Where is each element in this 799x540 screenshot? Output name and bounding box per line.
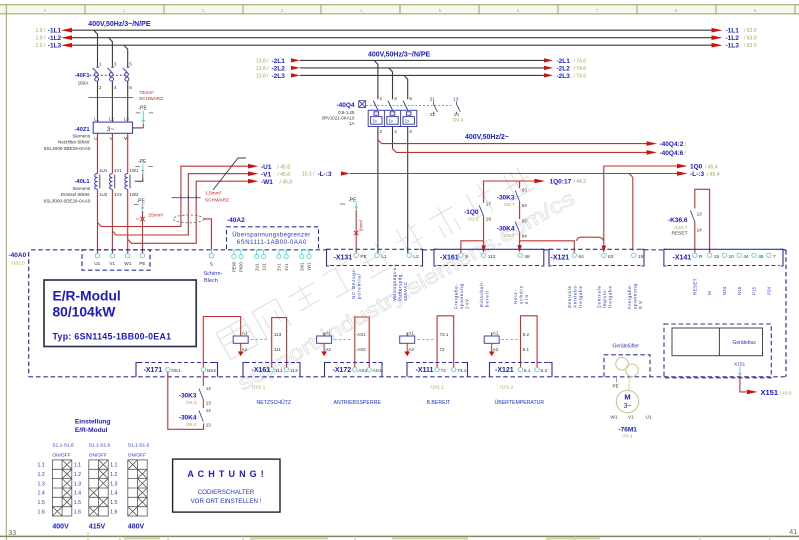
svg-text:potential: potential	[357, 274, 362, 299]
svg-text:-1L3: -1L3	[726, 43, 740, 50]
svg-text:W1: W1	[611, 414, 618, 419]
svg-text:I>: I>	[405, 119, 409, 125]
svg-text:L1: L1	[381, 254, 387, 260]
svg-text:-2L1: -2L1	[557, 58, 571, 65]
svg-text:ANTRIEBSSPERRE: ANTRIEBSSPERRE	[334, 400, 382, 406]
svg-text:1Q0:17: 1Q0:17	[550, 179, 572, 186]
svg-text:45: 45	[758, 254, 764, 260]
svg-text:-V1: -V1	[261, 171, 272, 178]
svg-text:NS1: NS1	[171, 368, 181, 374]
svg-text:PE: PE	[613, 383, 619, 388]
svg-text:U1: U1	[646, 414, 652, 419]
svg-text:113: 113	[274, 332, 282, 337]
svg-text:18: 18	[486, 216, 492, 221]
svg-text:SCHWARZ: SCHWARZ	[205, 197, 229, 203]
svg-text:Zentrale: Zentrale	[597, 286, 602, 308]
svg-text:Zentrale: Zentrale	[567, 286, 572, 308]
svg-text:/ 63.0: / 63.0	[744, 28, 757, 34]
svg-text:/101.2: /101.2	[500, 384, 514, 390]
svg-text:9: 9	[465, 254, 468, 260]
svg-text:0,9-1,25: 0,9-1,25	[338, 110, 355, 115]
svg-text:2V1: 2V1	[277, 263, 282, 271]
svg-text:63: 63	[522, 188, 528, 193]
svg-text:W1: W1	[124, 261, 132, 267]
svg-text:22: 22	[430, 112, 436, 117]
svg-text:5: 5	[409, 96, 412, 101]
svg-text:Überspannungsbegrenzer: Überspannungsbegrenzer	[232, 232, 310, 239]
svg-text:19: 19	[638, 254, 644, 260]
svg-text:A2: A2	[242, 347, 248, 352]
svg-text:400V: 400V	[52, 524, 69, 531]
svg-text:6SN1111-1AB00-0AA0: 6SN1111-1AB00-0AA0	[237, 240, 307, 246]
svg-text:1.2: 1.2	[110, 472, 117, 478]
svg-text:1: 1	[99, 61, 102, 66]
svg-text:A1: A1	[408, 330, 414, 335]
svg-text:13: 13	[206, 423, 212, 428]
svg-text:480V: 480V	[128, 524, 145, 531]
svg-text:1.4: 1.4	[110, 491, 117, 497]
svg-text:A2: A2	[493, 347, 499, 352]
svg-text:5.1: 5.1	[523, 347, 530, 352]
svg-text:ÜBERTEMPERATUR: ÜBERTEMPERATUR	[495, 399, 545, 406]
svg-text:NS2: NS2	[207, 368, 217, 374]
svg-text:-76M1: -76M1	[619, 426, 638, 433]
svg-text:-X121: -X121	[495, 367, 514, 374]
svg-text:M: M	[707, 291, 712, 295]
svg-text:-PE: -PE	[138, 159, 147, 165]
svg-text:freigabe: freigabe	[578, 286, 583, 308]
svg-text:113: 113	[290, 368, 298, 374]
svg-text:70mm²: 70mm²	[139, 90, 154, 96]
svg-text:1,5mm²: 1,5mm²	[205, 190, 222, 196]
svg-text:1.1: 1.1	[110, 463, 117, 469]
svg-text:N24: N24	[722, 286, 727, 295]
svg-text:I>: I>	[373, 119, 377, 125]
svg-text:1.4: 1.4	[74, 491, 81, 497]
svg-text:NC-Bezugs-: NC-Bezugs-	[351, 268, 356, 300]
svg-text:-L-:3: -L-:3	[318, 171, 332, 178]
svg-text:N15: N15	[737, 286, 742, 295]
svg-text:/ 63.0: / 63.0	[744, 43, 757, 49]
svg-text:-1L1: -1L1	[726, 28, 740, 35]
svg-text:/ 45.8: / 45.8	[278, 172, 291, 178]
svg-text:-40A0: -40A0	[9, 252, 27, 259]
svg-text:A2: A2	[408, 347, 414, 352]
svg-text:L2: L2	[413, 254, 419, 260]
svg-text:S1.1-S1.6: S1.1-S1.6	[89, 443, 111, 449]
svg-text:schütz: schütz	[519, 285, 524, 304]
svg-text:-X131: -X131	[334, 254, 353, 261]
svg-text:25mm²: 25mm²	[148, 213, 163, 219]
svg-text:-40F1: -40F1	[74, 73, 90, 79]
svg-text:Drossel 80kW:: Drossel 80kW:	[61, 192, 91, 197]
svg-text:E/R-Modul: E/R-Modul	[75, 427, 108, 434]
svg-text:Siemens: Siemens	[72, 186, 91, 191]
svg-text:P600: P600	[239, 262, 244, 272]
svg-text:A1: A1	[242, 330, 248, 335]
svg-text:RESET: RESET	[692, 278, 697, 295]
svg-text:Einschalt-: Einschalt-	[479, 281, 484, 308]
svg-text:300VAC: 300VAC	[403, 281, 408, 301]
svg-text:1V1: 1V1	[284, 263, 289, 271]
svg-text:9: 9	[754, 8, 757, 13]
svg-text:24V: 24V	[465, 299, 470, 309]
svg-text:8: 8	[675, 8, 678, 13]
svg-text:AS2: AS2	[358, 368, 367, 374]
svg-text:4: 4	[114, 85, 117, 90]
svg-text:VOR ORT EINSTELLEN !: VOR ORT EINSTELLEN !	[191, 498, 262, 505]
svg-text:1U1: 1U1	[261, 263, 266, 271]
svg-text:/ 74.6: / 74.6	[574, 58, 587, 64]
svg-text:-2L2: -2L2	[557, 65, 571, 72]
svg-text:Einstellung: Einstellung	[75, 418, 111, 425]
svg-text:3~: 3~	[624, 403, 632, 410]
svg-text:/ 74.6: / 74.6	[574, 66, 587, 72]
svg-text:-X172: -X172	[333, 367, 352, 374]
svg-text:1.5: 1.5	[110, 500, 117, 506]
svg-text:63: 63	[522, 219, 528, 224]
svg-text:Antriebs-: Antriebs-	[573, 284, 578, 309]
svg-text:CODIERSCHALTER: CODIERSCHALTER	[198, 489, 255, 496]
svg-text:64: 64	[522, 203, 528, 208]
svg-text:13.8 /: 13.8 /	[256, 66, 269, 72]
svg-text:3: 3	[281, 8, 284, 13]
svg-text:RESET: RESET	[672, 231, 688, 237]
svg-text:5.2: 5.2	[541, 368, 548, 374]
svg-text:-X111: -X111	[416, 367, 434, 374]
svg-text:A1: A1	[493, 330, 499, 335]
svg-text:-1Q0: -1Q0	[464, 209, 479, 216]
svg-text:111: 111	[275, 368, 283, 374]
svg-text:-PE: -PE	[137, 198, 146, 204]
svg-text:1.9 /: 1.9 /	[36, 28, 46, 34]
svg-text:B.BEREIT: B.BEREIT	[427, 400, 451, 406]
svg-text:PE60: PE60	[232, 261, 237, 272]
svg-text:112: 112	[488, 254, 496, 260]
svg-text:1.2: 1.2	[38, 472, 45, 478]
svg-text:1W2: 1W2	[129, 192, 139, 197]
svg-text:NETZSCHÜTZ: NETZSCHÜTZ	[257, 399, 292, 406]
svg-text:AS2: AS2	[357, 347, 366, 352]
svg-text:S: S	[210, 262, 213, 267]
svg-text:-2L3: -2L3	[557, 73, 571, 80]
svg-text:X151: X151	[761, 388, 779, 397]
svg-text:SCHWARZ: SCHWARZ	[139, 96, 163, 102]
svg-text:1.4: 1.4	[38, 491, 45, 497]
svg-text:-PE: -PE	[348, 198, 357, 204]
svg-text:3RV1021-0KA10: 3RV1021-0KA10	[322, 115, 355, 120]
svg-text:-X161: -X161	[440, 254, 459, 261]
svg-text:80/104kW: 80/104kW	[53, 305, 117, 320]
svg-text:1V1: 1V1	[114, 168, 123, 173]
svg-text:-U1: -U1	[261, 164, 272, 171]
svg-text:5: 5	[439, 8, 442, 13]
svg-text:-30K4: -30K4	[179, 415, 197, 422]
svg-text:-40Q4:6: -40Q4:6	[660, 150, 684, 157]
svg-text:Freigabe-: Freigabe-	[627, 284, 632, 310]
svg-text:/ 44.2: / 44.2	[574, 179, 587, 185]
svg-text:ON/OFF: ON/OFF	[128, 453, 146, 459]
svg-text:Siemens: Siemens	[72, 133, 91, 138]
svg-text:1W1: 1W1	[129, 168, 139, 173]
svg-text:U1: U1	[94, 261, 100, 267]
svg-text:400V,50Hz/2~: 400V,50Hz/2~	[465, 134, 509, 141]
svg-text:3: 3	[114, 61, 117, 66]
svg-text:10.1 /: 10.1 /	[302, 172, 315, 178]
svg-text:L1: L1	[94, 116, 100, 121]
svg-text:6mm²: 6mm²	[359, 219, 364, 231]
svg-text:spannung: spannung	[632, 284, 637, 309]
svg-text:111: 111	[274, 347, 281, 352]
svg-text:Pufferspdg.: Pufferspdg.	[398, 273, 403, 301]
svg-text:400V,50Hz/3~/N/PE: 400V,50Hz/3~/N/PE	[88, 21, 151, 28]
svg-text:A2: A2	[325, 347, 331, 352]
svg-text:/30.7: /30.7	[504, 202, 515, 208]
svg-text:160A: 160A	[78, 80, 90, 85]
svg-text:64: 64	[522, 233, 528, 238]
svg-text:-2L3: -2L3	[272, 73, 286, 80]
svg-text:Gerätelüfter: Gerätelüfter	[613, 343, 640, 349]
svg-text:PE: PE	[360, 254, 366, 260]
svg-text:1A: 1A	[349, 121, 354, 126]
svg-text:freigabe: freigabe	[608, 286, 613, 308]
svg-text:/101.0: /101.0	[12, 261, 26, 267]
svg-text:1.6: 1.6	[74, 509, 81, 515]
svg-text:-X161: -X161	[252, 367, 271, 374]
svg-text:/ 45.4: / 45.4	[705, 164, 718, 170]
svg-text:73.1: 73.1	[457, 368, 467, 374]
svg-text:1W1: 1W1	[307, 262, 312, 271]
svg-text:17: 17	[486, 202, 492, 207]
svg-text:63: 63	[608, 254, 614, 260]
svg-text:13: 13	[697, 212, 703, 217]
svg-text:14: 14	[697, 227, 703, 232]
svg-text:-30K4: -30K4	[497, 226, 515, 233]
svg-text:0V: 0V	[638, 301, 643, 309]
svg-text:-40Z1: -40Z1	[74, 127, 90, 133]
svg-text:7: 7	[596, 8, 599, 13]
svg-text:-X171: -X171	[144, 367, 163, 374]
svg-text:Gerätebus: Gerätebus	[733, 340, 757, 346]
svg-text:-30K3: -30K3	[497, 195, 515, 202]
svg-text:/20.4: /20.4	[453, 117, 464, 123]
svg-text:Typ: 6SN1145-1BB00-0EA1: Typ: 6SN1145-1BB00-0EA1	[53, 331, 172, 341]
svg-text:Blech: Blech	[204, 278, 218, 284]
svg-text:1.5: 1.5	[74, 500, 81, 506]
svg-text:-2L1: -2L1	[272, 58, 286, 65]
svg-text:1.6: 1.6	[38, 509, 45, 515]
svg-text:V1: V1	[109, 261, 115, 267]
svg-text:13: 13	[206, 401, 212, 406]
svg-text:-X121: -X121	[551, 254, 570, 261]
svg-text:/ 63.0: / 63.0	[744, 36, 757, 42]
svg-text:-1L2: -1L2	[726, 35, 740, 42]
svg-text:5.1: 5.1	[524, 368, 531, 374]
svg-text:-1L3: -1L3	[48, 43, 62, 50]
svg-text:spannung: spannung	[459, 284, 464, 309]
svg-text:-PE: -PE	[139, 105, 148, 111]
svg-text:48: 48	[524, 254, 530, 260]
svg-text:13: 13	[453, 96, 459, 101]
svg-text:/31.1: /31.1	[468, 217, 479, 223]
svg-text:S1.1-S1.6: S1.1-S1.6	[52, 443, 74, 449]
svg-text:6: 6	[517, 8, 520, 13]
svg-text:/101.1: /101.1	[431, 384, 445, 390]
svg-text:Versorgungs-u.: Versorgungs-u.	[392, 266, 397, 301]
svg-text:33: 33	[8, 530, 16, 537]
svg-text:Impuls-: Impuls-	[602, 289, 607, 309]
svg-text:2: 2	[99, 85, 102, 90]
svg-text:0: 0	[44, 8, 47, 13]
svg-text:1Q0: 1Q0	[690, 164, 703, 171]
svg-text:L3: L3	[124, 116, 130, 121]
svg-text:Schirm-: Schirm-	[204, 271, 223, 277]
svg-text:Freigabe-: Freigabe-	[454, 284, 459, 310]
svg-text:2: 2	[380, 129, 383, 134]
svg-text:5.2: 5.2	[523, 332, 530, 337]
svg-text:R: R	[699, 254, 703, 260]
svg-text:13.8 /: 13.8 /	[256, 73, 269, 79]
svg-text:3~: 3~	[107, 126, 115, 133]
svg-text:/120.7: /120.7	[674, 225, 688, 231]
svg-text:bereit: bereit	[485, 290, 490, 307]
svg-text:41: 41	[789, 529, 797, 536]
svg-text:S1.1-S1.6: S1.1-S1.6	[128, 443, 150, 449]
svg-text:1V2: 1V2	[114, 192, 123, 197]
svg-text:-40L1: -40L1	[74, 179, 90, 185]
svg-text:-1L2: -1L2	[48, 35, 62, 42]
svg-text:1.2: 1.2	[74, 472, 81, 478]
svg-text:AS1: AS1	[357, 332, 366, 337]
svg-text:/ 43.8: / 43.8	[780, 390, 792, 396]
svg-text:-1L1: -1L1	[48, 28, 62, 35]
svg-text:-30K3: -30K3	[179, 393, 197, 400]
svg-text:72: 72	[441, 368, 447, 374]
svg-text:1.5: 1.5	[38, 500, 45, 506]
svg-text:2W1: 2W1	[299, 262, 304, 271]
svg-text:1: 1	[380, 96, 383, 101]
svg-text:PE: PE	[139, 261, 145, 267]
svg-text:2: 2	[202, 8, 205, 13]
svg-text:A C H T U N G !: A C H T U N G !	[187, 469, 264, 479]
svg-text:ON/OFF: ON/OFF	[89, 453, 107, 459]
svg-text:-40Q4: -40Q4	[337, 102, 355, 109]
svg-text:4: 4	[360, 8, 363, 13]
svg-text:A1: A1	[325, 330, 331, 335]
svg-text:44: 44	[743, 254, 749, 260]
svg-text:P15: P15	[752, 286, 757, 295]
svg-text:72: 72	[440, 347, 446, 352]
svg-text:V1: V1	[628, 414, 634, 419]
svg-text:-40Q4:2: -40Q4:2	[660, 141, 684, 148]
svg-text:13.8 /: 13.8 /	[256, 58, 269, 64]
svg-text:X151: X151	[734, 361, 746, 367]
svg-text:-W1: -W1	[261, 179, 273, 186]
svg-text:1.1: 1.1	[38, 463, 45, 469]
svg-text:L2: L2	[109, 116, 115, 121]
svg-text:64: 64	[579, 254, 585, 260]
svg-text:ein: ein	[524, 295, 529, 304]
svg-text:6SL3000-0BE28-0AA0: 6SL3000-0BE28-0AA0	[44, 146, 91, 151]
svg-text:4: 4	[394, 129, 397, 134]
svg-text:15: 15	[714, 254, 720, 260]
svg-text:6: 6	[129, 85, 132, 90]
svg-text:M: M	[624, 393, 630, 402]
svg-text:Netz-: Netz-	[513, 290, 518, 305]
svg-text:7: 7	[773, 254, 776, 260]
svg-text:-40A2: -40A2	[227, 217, 245, 224]
svg-text:1U1: 1U1	[99, 168, 108, 173]
svg-text:14: 14	[206, 408, 212, 413]
svg-text:1U2: 1U2	[99, 192, 108, 197]
svg-text:-2L2: -2L2	[272, 65, 286, 72]
svg-text:1.9 /: 1.9 /	[36, 43, 46, 49]
svg-text:10: 10	[729, 254, 735, 260]
svg-text:/36.4: /36.4	[186, 422, 197, 428]
svg-text:P24: P24	[766, 286, 771, 295]
svg-text:/30.7: /30.7	[504, 233, 515, 239]
svg-text:-K36.6: -K36.6	[668, 217, 688, 224]
svg-text:/ 45.4: / 45.4	[707, 172, 720, 178]
svg-text:Netzfilter 80kW:: Netzfilter 80kW:	[58, 140, 90, 145]
svg-text:-X141: -X141	[673, 254, 692, 261]
svg-text:6SL3000-0DE28-0AA0: 6SL3000-0DE28-0AA0	[44, 199, 91, 204]
svg-text:400V,50Hz/3~/N/PE: 400V,50Hz/3~/N/PE	[368, 51, 431, 58]
svg-text:/74.1: /74.1	[622, 434, 633, 440]
svg-text:3: 3	[394, 96, 397, 101]
svg-text:/ 45.8: / 45.8	[280, 180, 293, 186]
svg-text:1: 1	[123, 8, 126, 13]
svg-text:-L-:3: -L-:3	[690, 171, 704, 178]
svg-text:E/R-Modul: E/R-Modul	[53, 289, 121, 304]
svg-text:21: 21	[430, 96, 436, 101]
svg-text:I>: I>	[389, 119, 393, 125]
svg-text:1.3: 1.3	[74, 481, 81, 487]
svg-text:6: 6	[409, 129, 412, 134]
svg-text:2U1: 2U1	[254, 263, 259, 271]
svg-text:73.1: 73.1	[440, 332, 449, 337]
svg-text:415V: 415V	[89, 524, 106, 531]
svg-text:W: W	[124, 136, 129, 141]
svg-text:/101.1: /101.1	[252, 384, 266, 390]
svg-text:AS1: AS1	[373, 368, 382, 374]
svg-text:ON/OFF: ON/OFF	[52, 453, 70, 459]
svg-text:/36.3: /36.3	[186, 400, 197, 406]
svg-text:5: 5	[129, 61, 132, 66]
svg-text:/ 74.6: / 74.6	[574, 73, 587, 79]
svg-text:1.9 /: 1.9 /	[36, 36, 46, 42]
svg-text:1.3: 1.3	[38, 481, 45, 487]
svg-text:1.3: 1.3	[110, 481, 117, 487]
svg-text:14: 14	[206, 386, 212, 391]
svg-text:/ 45.8: / 45.8	[278, 165, 291, 171]
svg-text:1.6: 1.6	[110, 509, 117, 515]
svg-text:1.1: 1.1	[74, 463, 81, 469]
